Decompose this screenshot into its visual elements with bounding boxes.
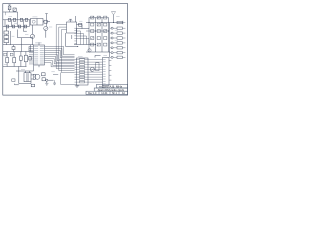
radio grid verticals [89,18,109,53]
wire transformer bottom [19,82,31,84]
wire bottom stub [15,84,19,85]
radio grid top rail [89,17,109,19]
IF filter FL1 [31,19,44,26]
capacitor C20 [53,80,56,85]
transistor Q2 [30,25,34,45]
wire net RF second rail [3,26,30,28]
label DS1 value [99,86,104,89]
capacitor C18 [104,37,107,40]
wire net audio bus [3,44,34,46]
label R4 value [14,22,17,24]
crystal Y1 [71,35,73,39]
capacitor C10 [79,23,82,26]
transformer T1 [24,71,31,82]
wire net A (detector) [18,30,34,38]
transistor Q6 [104,16,107,19]
label ANT name [116,16,119,18]
RN1 to display wires [88,60,103,83]
resistor R3 [25,18,28,21]
capacitor C19 [91,43,94,46]
label C20 value [51,71,54,73]
wire net ANT1 [3,12,18,20]
diode D1 [13,8,16,11]
label J3 value [115,30,118,32]
resistor network RN1 [75,58,89,85]
wire net ground rail left [3,67,27,84]
resistor R11 [29,57,32,60]
wire bias chain [6,28,10,45]
node JP1 [46,79,54,81]
capacitor C14 [97,23,100,26]
U2 bottom pin [38,65,40,67]
resistor R13 [104,23,107,26]
wire net long bus [74,44,96,46]
wire bundle to radio block [77,29,90,45]
U3 right pin net [77,25,83,29]
wire U3 aux [75,16,77,22]
wire U2 to speaker feed [33,65,35,71]
capacitor C1 [8,18,11,21]
wire IF bottom rail [86,51,110,53]
resistor R18 [104,43,107,46]
transistor Q1 [44,14,48,38]
capacitor C2 [13,18,16,21]
resistor R5 [43,20,50,23]
title block [86,84,128,95]
connector row group [110,27,126,54]
border frame [3,4,128,96]
capacitor C9 [42,78,45,81]
wire net volume rail [3,45,34,52]
resistor R4 [18,25,21,28]
wire net RF top rail [3,19,31,21]
wire bus U2 to resistor network (9 lines) [45,46,75,67]
wire U3 to bus L [66,33,79,47]
capacitor C13 [91,23,94,26]
svg-text:Rev 1.0: Rev 1.0 [88,92,97,95]
transistor Q5 [97,16,100,19]
clock IC U2 LM8560 [34,45,45,65]
diode D2 [12,79,15,82]
capacitor C16 [104,30,107,33]
wire stub ANT1a [5,12,7,15]
label J5 value [115,39,118,41]
speaker LS1 [31,74,40,79]
label FL1 value [32,16,37,18]
driver U5 [96,63,99,71]
wire junction stubs [5,20,29,27]
U3 supply pin [69,19,72,22]
resistor R19 [4,53,7,56]
resistor R21 [10,53,13,56]
radio IC U3 [67,22,77,33]
svg-text:Sh.1: Sh.1 [112,92,118,95]
ground GND2 [75,85,79,88]
wire control bus vertical [109,23,111,58]
DS1 top pin [95,55,101,57]
transistor Q3 [90,67,94,71]
capacitor C15 [91,30,94,33]
svg-text:12-04: 12-04 [101,92,108,95]
ground GND1 [45,81,48,85]
antenna ANT [111,12,115,23]
capacitor C17 [91,37,94,40]
capacitor C3 [6,25,9,28]
label DS1 name [103,55,107,57]
capacitor C6 [12,45,15,52]
wire net B (AGC) [21,38,23,52]
label R7 value [12,35,15,37]
wire antenna rail [86,22,123,24]
transistor Q4 [91,16,94,19]
resistor R16 [117,21,125,25]
transistor Q7 [88,49,91,52]
resistor R15 [97,37,100,40]
label Q2 value [25,33,28,35]
resistor R14 [97,30,100,33]
wire net to ground run [61,73,77,85]
resistor R6 [4,31,9,34]
resistor R17 [97,43,100,46]
U2 left pins [29,46,34,64]
resistor R1 [8,5,11,12]
switch S1 [31,84,34,87]
wire net D [53,74,58,76]
label Q1 value [49,26,52,28]
capacitor C7 [20,52,23,67]
label U2 name [35,42,41,44]
wire net C [23,27,27,32]
display DS1 [103,58,110,86]
junction dots radio [89,22,114,45]
wire U2 left feed [28,46,30,51]
resistor R7 [4,35,9,38]
wire net speaker feed [16,70,34,72]
capacitor C4 [12,25,15,28]
wire bus U3 to resistor network (3 lines) [56,25,74,73]
label R9 value [4,64,7,66]
label R2 value [9,16,12,18]
resistor R9 [6,52,9,67]
connector J9 [42,73,46,76]
U2 top pin [38,42,40,45]
resistor R8 [4,40,9,43]
label T1 value [21,68,25,70]
wire IF rail mid [86,30,109,32]
wire feeder vertical [74,28,76,44]
DS1 right pins [109,61,111,81]
capacitor C5 [24,25,27,28]
label RN1 name [78,55,83,57]
label C10 value [79,20,82,22]
resistor R2 [20,18,23,21]
resistor R10 [13,52,16,67]
switch row S2 [110,56,126,58]
label U3 name [68,19,73,21]
capacitor C8 electrolytic [24,52,27,67]
